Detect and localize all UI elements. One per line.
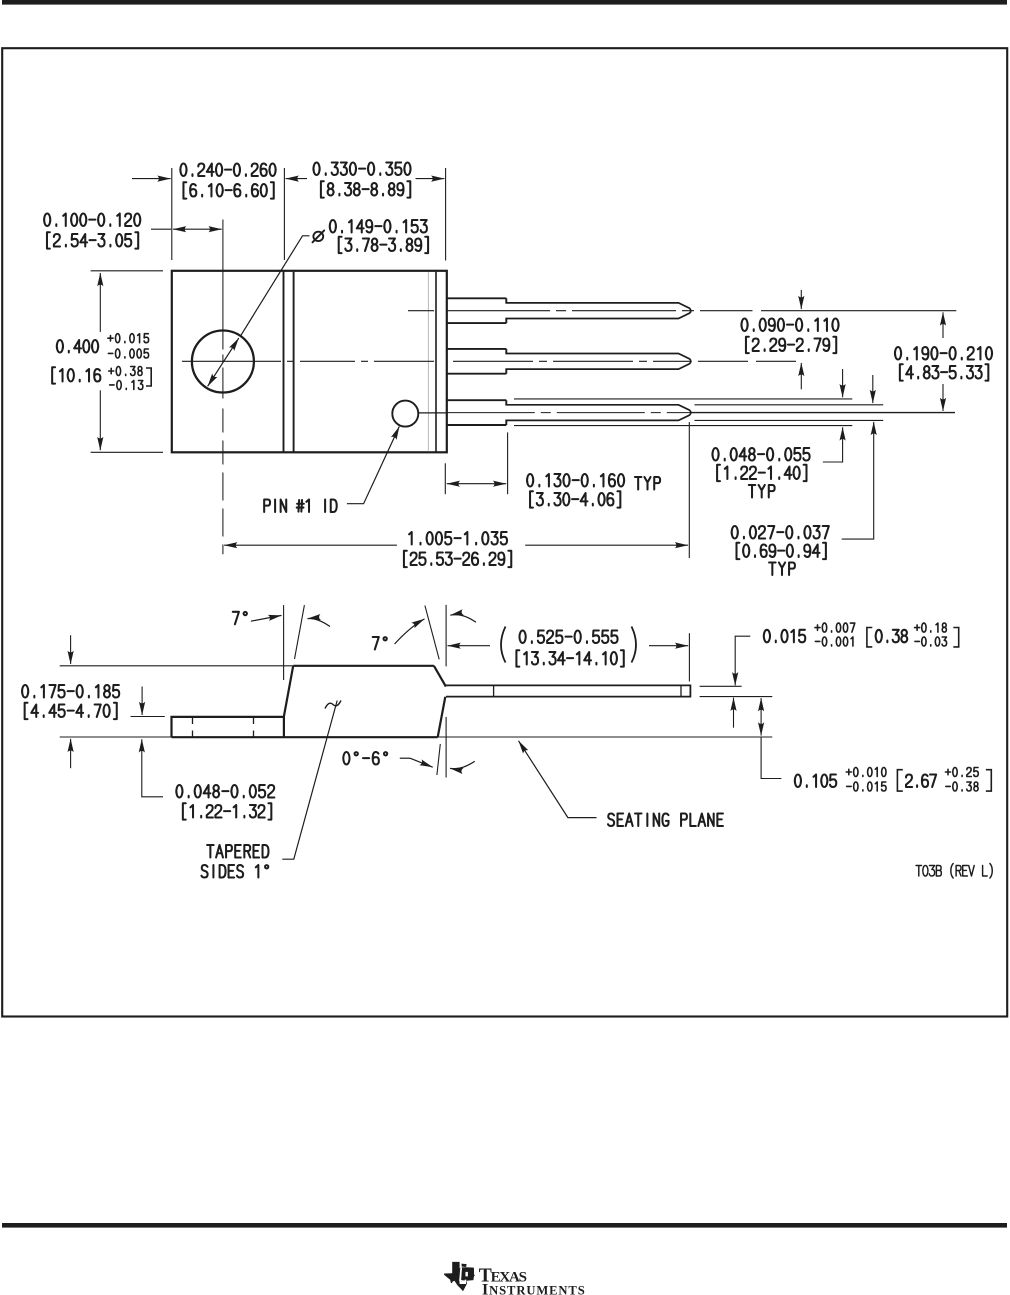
text 0.015 group xyxy=(867,628,872,647)
body inner line near right edge xyxy=(435,272,437,452)
7 deg left: slanted face extension xyxy=(295,605,305,659)
dim text 0.015 xyxy=(764,630,805,643)
dim text 0.048-0.052 xyxy=(176,785,274,798)
dim 0.240-0.260 extension line left xyxy=(171,168,173,260)
page border frame xyxy=(2,48,1007,1016)
mounting tab outline xyxy=(172,717,438,737)
label TAPERED SIDES 1 deg xyxy=(207,845,268,858)
dim 0.525-0.555 arrows xyxy=(448,645,491,647)
lead 3 inner width extension lines xyxy=(695,404,884,406)
dim arrows row y178.6 xyxy=(132,178,171,180)
dim 1.005-1.035 arrows xyxy=(224,544,397,546)
closing bracket 0.400 group xyxy=(146,368,151,386)
lead 1 wide section xyxy=(447,298,507,323)
dim 0-6 deg vertical reference xyxy=(445,717,447,778)
body front face line A xyxy=(283,272,285,452)
mounting hole xyxy=(192,331,254,393)
dim text 1.005-1.035 xyxy=(409,532,507,545)
pin 1 id circle xyxy=(392,401,418,427)
tapered sides leader xyxy=(282,701,337,860)
7 deg right: vertical reference line xyxy=(445,605,447,667)
lead 1 reference line xyxy=(761,310,956,312)
lead top extension line xyxy=(700,685,742,687)
dim 0.525-0.555 extension line right xyxy=(688,633,690,681)
lead 3 center line xyxy=(418,412,447,414)
package body outline xyxy=(172,271,447,453)
dim text 0.100-0.120 xyxy=(44,213,140,226)
dim text 0.048-0.055 xyxy=(712,448,809,461)
lead 2 / hole horizontal center line xyxy=(182,360,822,362)
0-6 deg leaders xyxy=(400,757,410,759)
dim 0.048-0.052 arrows/leader xyxy=(141,687,143,716)
lead 1 narrow section xyxy=(505,303,691,319)
dim 1.005-1.035 extension line right xyxy=(688,422,690,558)
dim text 0.400 xyxy=(57,340,98,353)
dim 0.100-0.120 leader and arrows xyxy=(151,228,171,230)
tab hidden lines xyxy=(192,718,194,738)
seating plane line xyxy=(60,736,773,738)
lead 2 narrow section xyxy=(505,354,691,370)
TI logo white crossbar notch xyxy=(465,1272,468,1277)
dim 0.015 leader and arrows xyxy=(735,636,750,685)
dim text 0.130-0.160 xyxy=(527,474,624,487)
body top extension line xyxy=(60,665,293,667)
7 deg right: slanted face extension xyxy=(425,606,439,660)
lead 3 narrow section xyxy=(505,405,691,421)
body front face line B xyxy=(293,272,295,452)
seating plane leader xyxy=(519,741,597,818)
dim 0.090-0.110 arrows xyxy=(800,290,802,309)
dim 0.190-0.210 arrows xyxy=(942,312,944,338)
lead 1 center line xyxy=(408,310,753,312)
dim 0.400 ticks xyxy=(91,270,163,272)
dim text 0.330-0.350 xyxy=(313,162,410,175)
7 deg left leader arrows xyxy=(251,615,282,621)
parenthesis close xyxy=(632,627,637,663)
tilde mark xyxy=(325,701,341,709)
side view body outline xyxy=(284,666,446,737)
dim extension line middle xyxy=(283,168,285,260)
dim text 0.090-0.110 xyxy=(741,318,838,331)
dim text 0.149-0.153 hole diameter xyxy=(330,220,427,233)
dim text 0.240-0.260 xyxy=(180,163,275,176)
dim 0.048-0.055 arrows/leader xyxy=(842,369,844,397)
dim text 0.027-0.037 xyxy=(732,526,829,539)
lead 3 reference line xyxy=(692,412,956,414)
angle 0-6 deg xyxy=(343,752,387,765)
TI logo i dot xyxy=(462,1264,467,1267)
dim text 0.190-0.210 xyxy=(895,347,992,360)
7 deg left: vertical reference line xyxy=(283,605,285,680)
hole diameter arrows xyxy=(208,338,239,386)
dim 0.400 arrows xyxy=(99,273,101,332)
dim 0.027-0.037 arrows/leader xyxy=(872,375,874,403)
top black bar xyxy=(2,0,1007,5)
TI logo white slash xyxy=(459,1268,462,1283)
parenthesis open xyxy=(501,627,506,663)
TI logo white bottom notch xyxy=(459,1280,466,1284)
side view lead xyxy=(446,685,691,696)
bottom black bar xyxy=(2,1223,1007,1228)
dim 0-6 deg slanted extension xyxy=(437,744,440,775)
dim 0.105 arrows xyxy=(760,698,762,736)
lead 3 wide section xyxy=(447,400,507,425)
text dia 0.149-0.153 xyxy=(313,232,323,241)
lead bottom extension line xyxy=(700,696,773,698)
lead 3 outer width extension lines xyxy=(514,398,852,400)
TI texas logo emblem xyxy=(444,1262,475,1291)
hole diameter leader xyxy=(240,236,309,336)
drawing number T03B (REV L) xyxy=(916,863,992,878)
dim text 0.525-0.555 xyxy=(520,630,618,643)
lead 2 wide section xyxy=(447,349,507,374)
dim 0.330-0.350 extension line right xyxy=(445,168,447,261)
dim text 0.105 xyxy=(795,774,836,787)
dim 0.105 leader xyxy=(761,737,781,779)
text 0.105 group xyxy=(897,770,902,791)
label SEATING PLANE xyxy=(608,813,723,826)
svg-text:INSTRUMENTS: INSTRUMENTS xyxy=(482,1281,586,1295)
pin 1 id leader xyxy=(347,427,399,504)
label PIN #1 ID xyxy=(264,499,337,512)
angle 7 deg left xyxy=(233,612,247,625)
hole vertical center line xyxy=(222,220,224,555)
dim 0.130-0.160 extension lines xyxy=(444,463,446,494)
dim 0.130-0.160 arrows xyxy=(447,483,507,485)
dim 0.175-0.185 arrows xyxy=(70,635,72,664)
7 deg right leader arrows xyxy=(395,619,425,644)
body light inner line xyxy=(427,272,429,451)
dim text 0.175-0.185 xyxy=(22,685,119,698)
dim 0.048-0.052 tick xyxy=(131,716,165,718)
angle 7 deg right xyxy=(373,637,387,650)
TI logo i stem xyxy=(461,1268,466,1281)
